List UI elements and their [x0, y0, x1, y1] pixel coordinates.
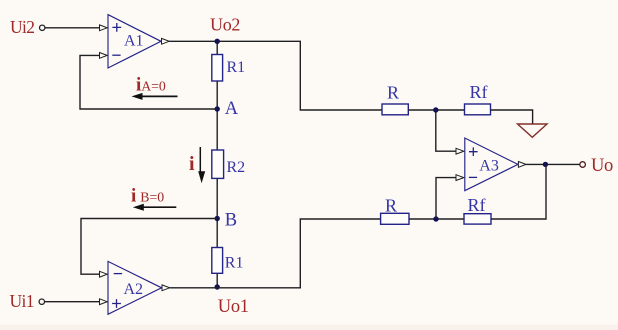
- svg-text:Uo2: Uo2: [210, 14, 240, 34]
- svg-text:i: i: [189, 153, 195, 175]
- svg-text:A2: A2: [124, 281, 144, 298]
- node junction top: [433, 107, 438, 112]
- svg-text:R1: R1: [227, 59, 246, 76]
- resistor Rf bottom: [464, 214, 491, 224]
- pin arrow A3 +in: [456, 148, 464, 154]
- wire A2 output to corner and bottom R: [170, 219, 381, 288]
- pin arrow A1 output: [162, 38, 170, 44]
- svg-text:A3: A3: [479, 158, 499, 175]
- pin arrow A3 output: [518, 162, 526, 168]
- resistor R1 top: [212, 55, 223, 82]
- terminal Ui1: [39, 299, 44, 304]
- current arrow iB: [133, 204, 177, 211]
- wire junction top down to A3 noninverting input: [436, 110, 456, 151]
- svg-text:R: R: [385, 196, 397, 216]
- terminal Ui2: [40, 25, 45, 30]
- terminal Uo: [580, 162, 586, 168]
- node Uo2: [215, 39, 220, 44]
- wire A2 feedback from node B to inverting input: [81, 219, 217, 275]
- current arrow i: [198, 147, 205, 183]
- wire R1 bottom to node Uo1: [216, 273, 218, 287]
- wire R to junction to Rf top: [408, 109, 464, 111]
- resistor R bottom: [381, 213, 409, 224]
- node A: [215, 106, 220, 111]
- svg-text:R: R: [387, 83, 399, 103]
- wire A1 feedback from node A to inverting input: [80, 55, 217, 109]
- resistor R2: [212, 150, 224, 178]
- current arrow iA: [132, 93, 178, 100]
- svg-text:Ui1: Ui1: [10, 291, 34, 311]
- svg-text:R1: R1: [225, 255, 244, 272]
- pin arrow A2 +in: [100, 299, 108, 305]
- svg-text:R2: R2: [227, 159, 246, 176]
- resistor R1 bottom: [212, 248, 223, 274]
- label iA=0: [136, 74, 166, 95]
- ground: [518, 124, 548, 137]
- svg-text:Uo: Uo: [591, 156, 613, 176]
- svg-text:Rf: Rf: [468, 195, 486, 215]
- pin arrow A3 -in: [456, 175, 464, 181]
- svg-text:A: A: [225, 99, 239, 119]
- pin arrow A2 -in: [100, 271, 108, 277]
- label iB=0: [131, 185, 164, 206]
- svg-text:A1: A1: [124, 32, 144, 49]
- svg-text:B: B: [225, 211, 237, 231]
- wire R bottom to junction to Rf bottom: [409, 218, 464, 220]
- svg-text:Ui2: Ui2: [10, 17, 34, 37]
- wire Ui2 to A1 noninverting input: [45, 27, 100, 29]
- wire Ui1 to A2 noninverting input: [45, 301, 100, 303]
- wire R1 to node A to R2: [216, 81, 218, 150]
- svg-text:Rf: Rf: [470, 82, 488, 102]
- node Uo1: [215, 284, 220, 289]
- wire Uo2 down to R1: [216, 41, 218, 54]
- bottom edge band: [0, 325, 618, 330]
- svg-text:A=0: A=0: [141, 78, 166, 93]
- op-amp A3: [465, 138, 518, 191]
- op-amp A1: [108, 15, 161, 68]
- resistor Rf top: [465, 104, 491, 115]
- node junction bottom: [433, 216, 438, 221]
- op-amp A2: [108, 261, 162, 314]
- wire Rf bottom feedback to output junction: [491, 164, 546, 219]
- pin arrow A2 output: [162, 285, 170, 291]
- wire A1 output to corner and top R: [169, 41, 382, 110]
- svg-text:Uo1: Uo1: [218, 297, 249, 317]
- wire A3 output to terminal: [526, 163, 580, 165]
- resistor R top: [382, 104, 408, 115]
- wire junction bottom up to A3 inverting input: [436, 178, 456, 219]
- wire R2 to node B: [216, 178, 218, 247]
- pin arrow A1 -in: [100, 53, 108, 59]
- pin arrow A1 +in: [100, 25, 108, 31]
- svg-text:B=0: B=0: [140, 189, 164, 204]
- node output junction: [543, 162, 548, 167]
- wire Rf top to ground: [491, 110, 533, 124]
- svg-text:i: i: [131, 185, 136, 206]
- node B: [215, 216, 220, 221]
